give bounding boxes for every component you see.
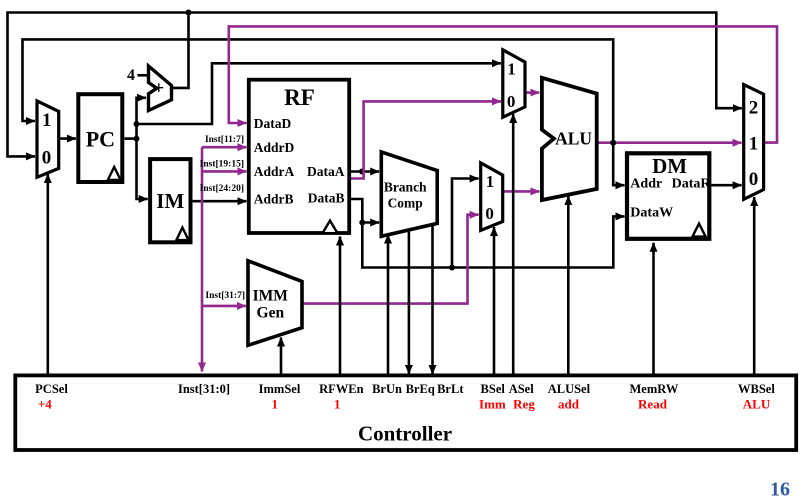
wire ASel mux output to ALU A <box>525 91 539 94</box>
svg-text:ALU: ALU <box>743 397 771 412</box>
alu ALU <box>542 78 597 200</box>
svg-text:Inst[19:15]: Inst[19:15] <box>200 159 244 169</box>
wire DataB to Branch Comp B <box>362 221 379 224</box>
wire BrUn control <box>387 235 390 376</box>
svg-text:DataR: DataR <box>672 177 712 192</box>
node PC output junction <box>134 136 140 142</box>
label MemRW <box>629 382 678 412</box>
wire inst[31:7] to IMM Gen <box>202 305 246 308</box>
svg-text:+: + <box>153 78 164 99</box>
wire RFWEn control <box>339 237 342 376</box>
label ImmSel <box>259 382 301 412</box>
wire BSel control <box>493 227 496 375</box>
wire ALU result to PCSel mux input 1 <box>23 39 614 142</box>
label BrUn <box>372 382 402 396</box>
svg-text:Gen: Gen <box>257 305 285 322</box>
label Inst[31:0] <box>178 382 230 396</box>
wire writeback to RF DataD <box>229 26 777 142</box>
mux BSel <box>481 163 503 231</box>
wire inst bus down to controller <box>201 147 204 371</box>
svg-text:Comp: Comp <box>388 196 423 211</box>
svg-text:BrUn: BrUn <box>372 382 402 396</box>
label Inst[24:20] <box>200 184 244 194</box>
svg-text:Controller: Controller <box>358 422 452 446</box>
wire PC to ASel mux input 1 <box>137 63 502 124</box>
wire ASel control <box>512 114 515 375</box>
svg-text:Read: Read <box>638 397 668 412</box>
svg-text:1: 1 <box>42 110 52 131</box>
wire RF DataA to ASel mux input 0 <box>349 101 501 178</box>
svg-text:IMM: IMM <box>253 288 289 305</box>
memory IM <box>150 159 190 242</box>
wire IM instruction to RF AddrB <box>193 200 247 203</box>
svg-text:0: 0 <box>42 148 52 169</box>
label BrLt <box>437 382 464 396</box>
mux PCSel <box>37 101 59 177</box>
wire MemRW control <box>652 243 655 376</box>
svg-text:ImmSel: ImmSel <box>259 382 301 396</box>
node PC branch junction <box>134 121 140 127</box>
svg-text:4: 4 <box>127 67 135 84</box>
svg-text:Branch: Branch <box>384 180 427 195</box>
svg-text:Imm: Imm <box>479 397 506 412</box>
node adder output junction <box>186 10 192 16</box>
wire BSel mux output to ALU B <box>503 190 540 193</box>
svg-text:1: 1 <box>486 172 495 191</box>
label Inst[11:7] <box>205 135 244 145</box>
svg-text:DataB: DataB <box>308 191 345 206</box>
wire PCSel mux output to PC <box>59 137 76 140</box>
adder +4 <box>149 66 172 111</box>
svg-text:add: add <box>558 397 580 412</box>
wire top rail PC+4 to WB mux input 2 <box>189 13 742 109</box>
svg-text:ALUSel: ALUSel <box>548 382 591 396</box>
label Inst[31:7] <box>205 291 245 301</box>
node DataB DataW junction <box>449 265 455 271</box>
svg-text:WBSel: WBSel <box>738 382 775 396</box>
label constant 4 <box>127 67 135 84</box>
svg-text:AddrD: AddrD <box>254 140 295 155</box>
wire PC to +4 adder <box>137 98 147 139</box>
wire WBSel control <box>753 197 756 375</box>
wire top rail PC+4 to PCSel mux input 0 <box>8 13 189 157</box>
svg-text:2: 2 <box>749 98 759 119</box>
wire ALUSel control <box>567 196 570 375</box>
wire constant 4 to adder <box>138 74 150 77</box>
mux WBSel <box>744 85 764 200</box>
wire adder output to top rail <box>172 13 189 88</box>
wire PCSel control <box>46 174 49 375</box>
svg-text:RF: RF <box>284 85 315 110</box>
label BrEq <box>406 382 435 396</box>
comparator Branch Comp <box>381 152 437 236</box>
svg-text:16: 16 <box>770 479 790 501</box>
svg-text:Inst[11:7]: Inst[11:7] <box>205 135 244 145</box>
wire IMM Gen output to BSel mux input 0 <box>302 215 479 304</box>
svg-text:BrEq: BrEq <box>406 382 435 396</box>
svg-text:0: 0 <box>507 92 516 111</box>
label ASel <box>509 382 536 412</box>
svg-text:1: 1 <box>334 397 341 412</box>
svg-text:1: 1 <box>749 134 759 155</box>
svg-text:ALU: ALU <box>555 128 592 148</box>
mux ASel <box>503 50 525 117</box>
wire ALU result to DM Addr <box>613 143 624 186</box>
wire ALU output to WB mux input 1 <box>597 141 742 144</box>
wire ImmSel control <box>280 338 283 376</box>
svg-text:ASel: ASel <box>509 382 535 396</box>
svg-text:0: 0 <box>485 204 494 223</box>
wire PC output <box>124 137 136 140</box>
page number 16 <box>770 479 790 501</box>
svg-text:BSel: BSel <box>481 382 506 396</box>
wire PC to IM <box>137 139 148 199</box>
wire RF DataB to DM DataW <box>349 199 624 268</box>
wire RF DataA to Branch Comp A <box>349 170 379 173</box>
svg-text:1: 1 <box>507 59 516 78</box>
wire BrEq to controller <box>408 229 411 374</box>
wire DataB to BSel mux input 1 <box>452 179 479 268</box>
svg-text:RFWEn: RFWEn <box>319 382 364 396</box>
svg-text:BrLt: BrLt <box>437 382 464 396</box>
controller box <box>15 375 796 450</box>
svg-text:AddrA: AddrA <box>254 164 295 179</box>
svg-text:0: 0 <box>749 169 759 190</box>
svg-text:DataA: DataA <box>307 164 345 179</box>
svg-text:Inst[31:0]: Inst[31:0] <box>178 382 230 396</box>
svg-text:Addr: Addr <box>630 177 662 192</box>
svg-text:Inst[24:20]: Inst[24:20] <box>200 184 244 194</box>
svg-text:1: 1 <box>271 397 278 412</box>
wire BrLt to controller <box>431 224 434 374</box>
svg-text:DataD: DataD <box>254 116 292 131</box>
memory DM <box>627 153 711 239</box>
svg-text:PCSel: PCSel <box>35 382 68 396</box>
svg-text:MemRW: MemRW <box>629 382 678 396</box>
label WBSel <box>738 382 775 412</box>
immediate generator IMM Gen <box>248 261 302 346</box>
svg-text:DataW: DataW <box>630 206 673 221</box>
svg-text:+4: +4 <box>38 397 52 412</box>
svg-text:DM: DM <box>652 154 687 178</box>
register file RF <box>249 80 349 234</box>
label PCSel <box>35 382 68 412</box>
svg-text:AddrB: AddrB <box>254 192 294 207</box>
label RFWEn <box>319 382 364 412</box>
label Inst[19:15] <box>200 159 244 169</box>
register PC <box>78 94 122 182</box>
label ALUSel <box>548 382 591 412</box>
svg-text:Reg: Reg <box>513 397 535 412</box>
svg-text:IM: IM <box>156 189 184 213</box>
wire DM DataR to WB mux input 0 <box>712 184 742 187</box>
wire inst[19:15] to RF AddrA <box>202 170 247 173</box>
node ALU output junction <box>610 140 616 146</box>
label BSel <box>479 382 506 412</box>
node DataB junction <box>359 220 365 226</box>
svg-text:Inst[31:7]: Inst[31:7] <box>205 291 245 301</box>
node DataA junction <box>359 169 365 175</box>
wire inst[11:7] to RF AddrD <box>202 146 247 149</box>
svg-text:PC: PC <box>86 126 115 151</box>
